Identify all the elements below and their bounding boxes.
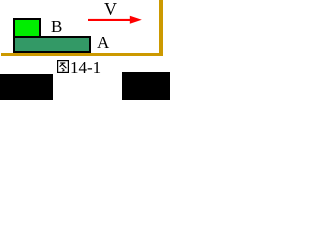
caption text 14-1 bbox=[70, 61, 101, 74]
velocity arrow bbox=[87, 14, 142, 26]
caption character 图 bbox=[57, 60, 69, 73]
label B bbox=[51, 21, 62, 33]
black rectangle bottom-right bbox=[122, 72, 170, 100]
block B bbox=[13, 18, 41, 38]
block A bbox=[13, 36, 91, 53]
label A bbox=[97, 37, 109, 48]
wall (right vertical bar) bbox=[159, 0, 163, 56]
label V bbox=[104, 3, 117, 16]
ground line bbox=[1, 53, 163, 56]
black rectangle bottom-left bbox=[0, 74, 53, 100]
